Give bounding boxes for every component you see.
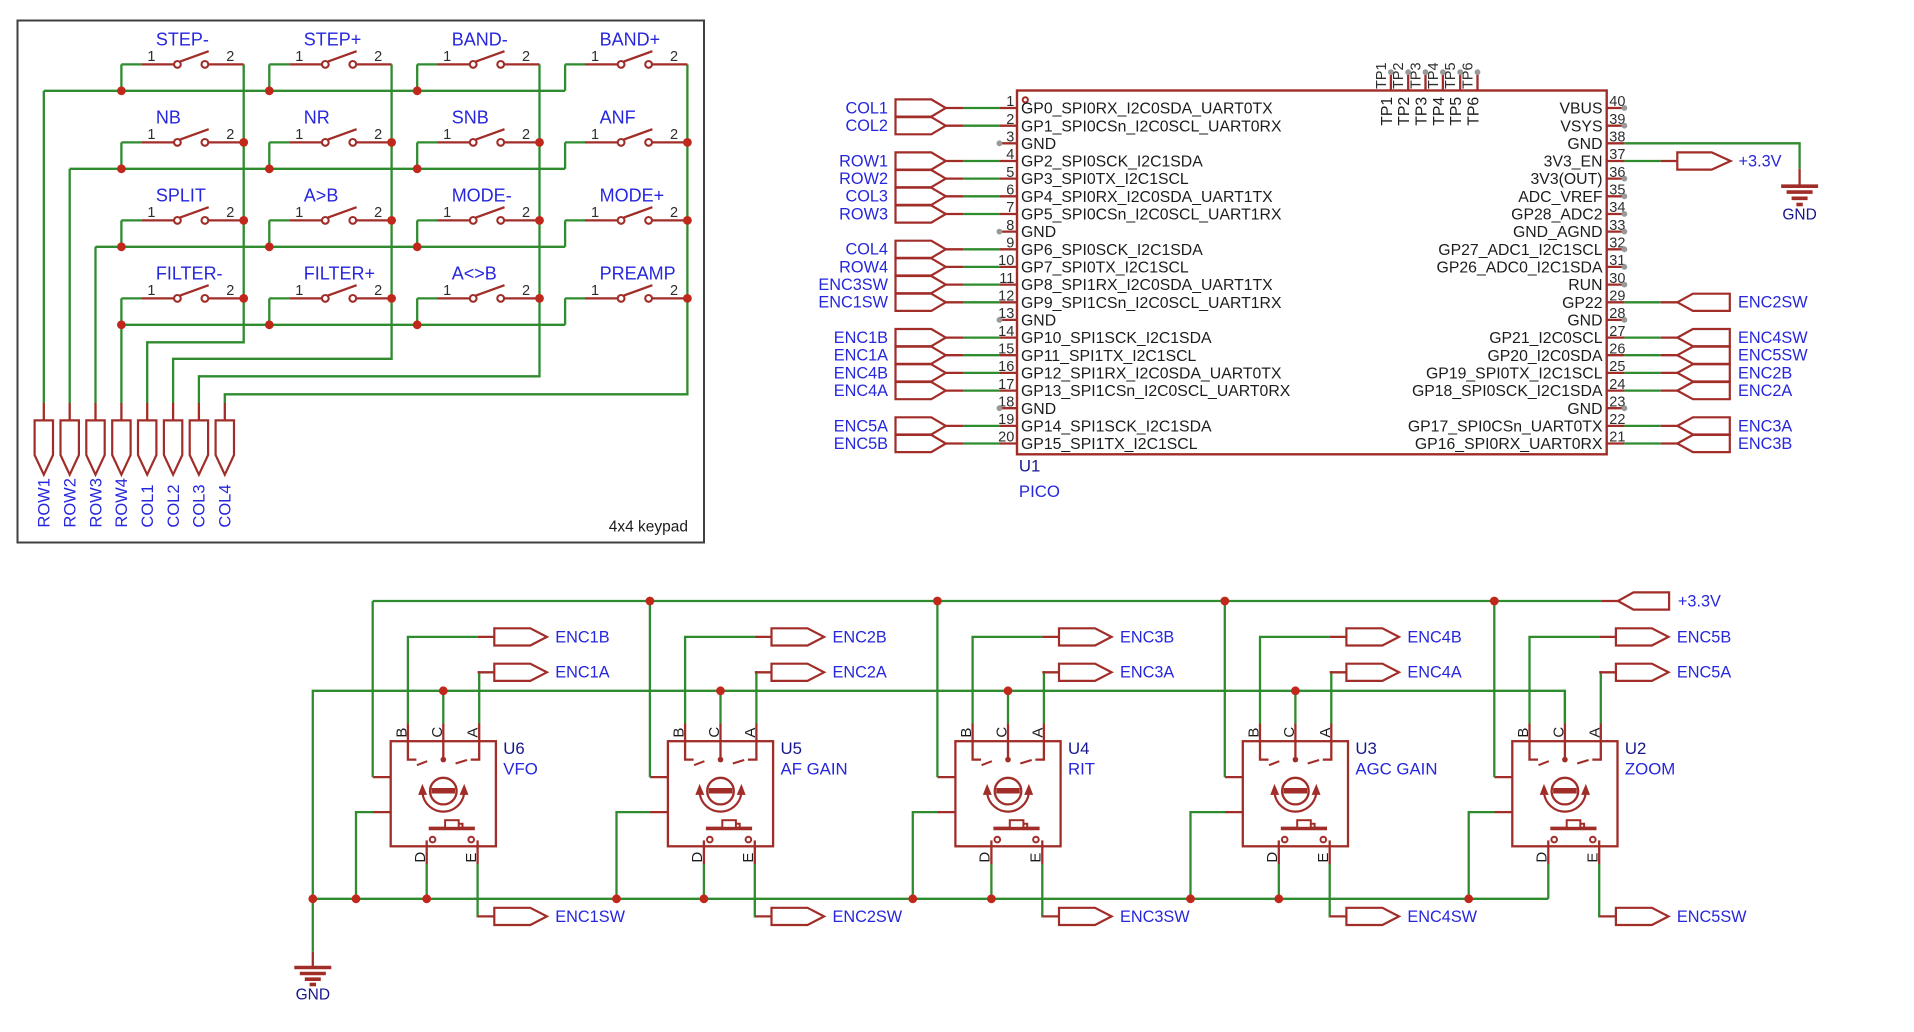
svg-text:ENC2A: ENC2A: [1738, 382, 1792, 400]
junction C rail U6: [439, 686, 448, 695]
wire GND rail: [313, 898, 1549, 900]
svg-text:E: E: [740, 853, 757, 863]
net tag ENC2A at U1 pin 24: [1624, 382, 1792, 400]
svg-text:2: 2: [374, 127, 382, 143]
junction 3V3 rail U2: [1490, 597, 1499, 606]
svg-text:ROW4: ROW4: [113, 478, 131, 528]
svg-text:ROW3: ROW3: [87, 478, 105, 528]
svg-text:2: 2: [374, 49, 382, 65]
svg-text:B: B: [958, 728, 975, 738]
svg-text:GP26_ADC0_I2C1SDA: GP26_ADC0_I2C1SDA: [1437, 260, 1603, 277]
svg-text:A: A: [1586, 728, 1603, 738]
net tag ENC2SW: [755, 908, 903, 926]
svg-text:COL2: COL2: [845, 117, 888, 135]
net tag ENC2B: [755, 628, 887, 646]
svg-text:U4: U4: [1068, 739, 1089, 758]
wire ENC2B: [685, 637, 755, 724]
svg-text:37: 37: [1609, 147, 1625, 163]
svg-text:1: 1: [443, 127, 451, 143]
U1 pin 1 GP0_SPI0RX_I2C0SDA_UART0TX: [999, 94, 1273, 117]
svg-text:U6: U6: [503, 739, 524, 758]
U1 test point pin TP6: [1461, 62, 1483, 125]
svg-text:14: 14: [998, 324, 1014, 340]
connector pin COL3: [190, 403, 209, 528]
junction GND rail U5 D: [700, 894, 709, 903]
net tag ENC5A at U1 pin 19: [834, 417, 1000, 435]
svg-text:E: E: [463, 853, 480, 863]
svg-text:NR: NR: [304, 107, 330, 127]
svg-text:BAND+: BAND+: [600, 29, 661, 49]
connector pin ROW1: [35, 403, 54, 528]
junction row1 col2: [265, 86, 274, 95]
junction row1 col3: [413, 86, 422, 95]
svg-text:TP3: TP3: [1409, 62, 1425, 89]
net tag ENC1A at U1 pin 15: [834, 347, 1000, 365]
junction GND rail U5 left: [612, 894, 621, 903]
svg-text:MODE+: MODE+: [600, 185, 665, 205]
svg-text:GP19_SPI0TX_I2C1SCL: GP19_SPI0TX_I2C1SCL: [1426, 366, 1603, 383]
svg-text:GND_AGND: GND_AGND: [1513, 224, 1603, 241]
svg-text:TP5: TP5: [1443, 62, 1459, 89]
net tag ENC5A: [1599, 664, 1731, 682]
net tag ROW4 at U1 pin 10: [839, 258, 999, 276]
svg-text:STEP-: STEP-: [156, 29, 209, 49]
U1 pin 29 GP22: [1562, 289, 1625, 312]
switch SW3 BAND-: [417, 29, 539, 90]
wire U6 C pin to rail: [442, 691, 444, 724]
svg-text:GP16_SPI0RX_UART0RX: GP16_SPI0RX_UART0RX: [1415, 436, 1603, 453]
junction GND rail U2 left: [1464, 894, 1473, 903]
junction row2 col1: [117, 164, 126, 173]
wire ENC5A: [1599, 672, 1601, 723]
wire U5 D pin to GND rail: [703, 864, 705, 899]
connector pin COL4: [216, 403, 235, 528]
wire C common rail: [313, 691, 1565, 899]
svg-text:ROW4: ROW4: [839, 258, 888, 276]
wire COL4 vertical: [225, 64, 688, 403]
svg-text:ENC1A: ENC1A: [555, 664, 609, 682]
svg-text:A: A: [1029, 728, 1046, 738]
svg-text:GP17_SPI0CSn_UART0TX: GP17_SPI0CSn_UART0TX: [1408, 419, 1603, 436]
junction COL1 pin2 row4: [239, 294, 248, 303]
net tag ENC4SW at U1 pin 27: [1624, 329, 1808, 347]
svg-text:GND: GND: [1567, 136, 1602, 153]
svg-text:B: B: [393, 728, 410, 738]
svg-text:GP11_SPI1TX_I2C1SCL: GP11_SPI1TX_I2C1SCL: [1021, 348, 1197, 365]
svg-text:SPLIT: SPLIT: [156, 185, 206, 205]
svg-text:ENC5B: ENC5B: [834, 435, 888, 453]
svg-text:1: 1: [147, 283, 155, 299]
U1 pin 16 GP12_SPI1RX_I2C0SDA_UART0TX: [998, 359, 1282, 382]
junction COL3 pin2 row4: [535, 294, 544, 303]
svg-text:1: 1: [1006, 94, 1014, 110]
U1 test point pin TP3: [1409, 62, 1431, 125]
svg-text:GND: GND: [1021, 401, 1056, 418]
junction row3 col1: [117, 242, 126, 251]
svg-text:TP4: TP4: [1431, 97, 1448, 126]
U1 pin 28 GND: [1567, 306, 1627, 329]
net tag ENC4B at U1 pin 16: [834, 364, 1000, 382]
svg-text:RIT: RIT: [1068, 760, 1095, 779]
U1 pin 20 GP15_SPI1TX_I2C1SCL: [998, 430, 1198, 453]
U1 pin 13 GND: [997, 306, 1057, 329]
svg-text:ENC1B: ENC1B: [834, 329, 888, 347]
svg-text:17: 17: [998, 377, 1014, 393]
U1 pin 39 VSYS: [1560, 112, 1627, 135]
wire ENC1A: [478, 672, 480, 723]
U1 pin1 marker: [1023, 97, 1028, 102]
svg-text:2: 2: [670, 283, 678, 299]
svg-text:GP9_SPI1CSn_I2C0SCL_UART1RX: GP9_SPI1CSn_I2C0SCL_UART1RX: [1021, 295, 1282, 312]
svg-text:ROW2: ROW2: [62, 478, 80, 528]
svg-text:GP12_SPI1RX_I2C0SDA_UART0TX: GP12_SPI1RX_I2C0SDA_UART0TX: [1021, 366, 1282, 383]
svg-text:C: C: [429, 727, 446, 738]
svg-text:TP2: TP2: [1396, 97, 1413, 126]
svg-text:ENC4A: ENC4A: [834, 382, 888, 400]
net tag ENC1A: [478, 664, 610, 682]
junction GND drop: [308, 894, 317, 903]
svg-text:GP27_ADC1_I2C1SCL: GP27_ADC1_I2C1SCL: [1438, 242, 1602, 259]
wire U6 3V3 pin: [372, 601, 374, 777]
U1 pin 32 GP27_ADC1_I2C1SCL: [1438, 236, 1627, 259]
svg-text:ZOOM: ZOOM: [1625, 760, 1675, 779]
wire U2 D pin to GND rail: [1547, 864, 1549, 899]
wire ROW2 horizontal: [70, 168, 565, 170]
svg-text:8: 8: [1006, 218, 1014, 234]
svg-text:C: C: [1281, 727, 1298, 738]
svg-text:TP1: TP1: [1374, 62, 1390, 89]
wire ENC4A: [1330, 672, 1332, 723]
svg-text:COL1: COL1: [845, 99, 888, 117]
wire ROW2 drop to connector: [69, 169, 71, 403]
net tag ENC1B: [478, 628, 610, 646]
svg-text:1: 1: [295, 49, 303, 65]
svg-text:B: B: [671, 728, 688, 738]
net tag ENC5SW at U1 pin 26: [1624, 347, 1808, 365]
power tag +3.3V at U1 pin 37: [1624, 152, 1781, 170]
svg-text:A: A: [1317, 728, 1334, 738]
U1 pin 37 3V3_EN: [1544, 147, 1626, 170]
svg-text:ENC3SW: ENC3SW: [1120, 908, 1190, 926]
switch SW11 MODE-: [417, 185, 539, 246]
wire ENC3A: [1042, 672, 1044, 723]
svg-text:ADC_VREF: ADC_VREF: [1518, 189, 1603, 206]
U1 pin 25 GP19_SPI0TX_I2C1SCL: [1426, 359, 1625, 382]
U1 test point pin TP1: [1374, 62, 1396, 125]
junction 3V3 rail U4: [933, 597, 942, 606]
svg-text:27: 27: [1609, 324, 1625, 340]
svg-text:ROW1: ROW1: [839, 152, 888, 170]
svg-text:1: 1: [147, 49, 155, 65]
ground symbol bottom: [294, 952, 331, 1004]
svg-text:3V3(OUT): 3V3(OUT): [1531, 171, 1603, 188]
junction COL1 pin2 row3: [239, 216, 248, 225]
U1 pin 33 GND_AGND: [1513, 218, 1627, 241]
svg-text:1: 1: [591, 127, 599, 143]
svg-text:1: 1: [443, 49, 451, 65]
svg-text:BAND-: BAND-: [452, 29, 508, 49]
svg-text:GP14_SPI1SCK_I2C1SDA: GP14_SPI1SCK_I2C1SDA: [1021, 419, 1212, 436]
svg-text:ENC3A: ENC3A: [1120, 664, 1174, 682]
svg-text:ROW2: ROW2: [839, 170, 888, 188]
wire ENC2A: [755, 672, 757, 723]
junction 3V3 rail U3: [1220, 597, 1229, 606]
wire COL3 vertical: [199, 64, 540, 403]
svg-text:4: 4: [1006, 147, 1014, 163]
svg-text:1: 1: [295, 127, 303, 143]
svg-text:D: D: [412, 852, 429, 863]
U1 pin 31 GP26_ADC0_I2C1SDA: [1437, 253, 1628, 276]
svg-text:FILTER-: FILTER-: [156, 263, 223, 283]
junction GND rail U3 D: [1274, 894, 1283, 903]
svg-text:2: 2: [226, 205, 234, 221]
svg-text:D: D: [1534, 852, 1551, 863]
switch SW6 NR: [269, 107, 391, 168]
U1 pin 17 GP13_SPI1CSn_I2C0SCL_UART0RX: [998, 377, 1291, 400]
svg-text:ENC5SW: ENC5SW: [1738, 347, 1808, 365]
junction row3 col2: [265, 242, 274, 251]
svg-text:VSYS: VSYS: [1560, 118, 1602, 135]
svg-text:U3: U3: [1355, 739, 1376, 758]
wire ENC1SW: [476, 864, 478, 916]
U1 pin 40 VBUS: [1559, 94, 1627, 117]
junction C rail U5: [716, 686, 725, 695]
svg-text:ENC4B: ENC4B: [1407, 628, 1461, 646]
svg-text:B: B: [1246, 728, 1263, 738]
svg-text:19: 19: [998, 412, 1014, 428]
svg-text:2: 2: [226, 283, 234, 299]
svg-text:NB: NB: [156, 107, 181, 127]
svg-text:E: E: [1584, 853, 1601, 863]
svg-text:2: 2: [670, 205, 678, 221]
svg-text:2: 2: [670, 49, 678, 65]
svg-text:2: 2: [226, 49, 234, 65]
svg-text:ENC1B: ENC1B: [555, 628, 609, 646]
wire U4 3V3 pin: [936, 601, 938, 777]
svg-text:3V3_EN: 3V3_EN: [1544, 154, 1603, 171]
junction GND rail U4 left: [908, 894, 917, 903]
U1 pin 7 GP5_SPI0CSn_I2C0SCL_UART1RX: [999, 200, 1282, 223]
net tag ENC5B at U1 pin 20: [834, 435, 1000, 453]
U1 test point pin TP2: [1391, 62, 1413, 125]
svg-text:B: B: [1515, 728, 1532, 738]
switch SW10 A>B: [269, 185, 391, 246]
U1 pin 23 GND: [1567, 394, 1627, 417]
svg-text:AF GAIN: AF GAIN: [781, 760, 848, 779]
wire ENC5SW: [1598, 864, 1600, 916]
junction COL2 pin2 row3: [387, 216, 396, 225]
wire ENC2SW: [754, 864, 756, 916]
U1 pin 8 GND: [997, 218, 1057, 241]
svg-text:GND: GND: [1782, 207, 1816, 224]
svg-text:+3.3V: +3.3V: [1739, 152, 1782, 170]
U1 pin 18 GND: [997, 394, 1057, 417]
svg-text:GP0_SPI0RX_I2C0SDA_UART0TX: GP0_SPI0RX_I2C0SDA_UART0TX: [1021, 101, 1273, 118]
wire ENC4B: [1260, 637, 1330, 724]
switch SW9 SPLIT: [121, 185, 243, 246]
svg-text:GND: GND: [296, 987, 330, 1004]
svg-text:ANF: ANF: [600, 107, 636, 127]
U1 test point pin TP5: [1443, 62, 1465, 125]
wire U3 C pin to rail: [1294, 691, 1296, 724]
wire U1 pin38 to GND: [1624, 143, 1799, 169]
svg-text:TP3: TP3: [1414, 97, 1431, 126]
svg-text:1: 1: [443, 283, 451, 299]
svg-text:TP2: TP2: [1391, 62, 1407, 89]
switch SW2 STEP+: [269, 29, 391, 90]
svg-text:GND: GND: [1567, 313, 1602, 330]
svg-text:E: E: [1028, 853, 1045, 863]
rotary encoder U2 ZOOM: [1494, 724, 1675, 865]
connector pin COL2: [164, 403, 183, 528]
svg-text:1: 1: [591, 205, 599, 221]
U1 pin 6 GP4_SPI0RX_I2C0SDA_UART1TX: [999, 183, 1273, 206]
switch SW15 A<>B: [417, 263, 539, 324]
U1 pin 2 GP1_SPI0CSn_I2C0SCL_UART0RX: [999, 112, 1282, 135]
connector pin ROW3: [86, 403, 105, 528]
switch SW13 FILTER-: [121, 263, 243, 324]
junction COL1 pin2 row2: [239, 138, 248, 147]
U1 pin 12 GP9_SPI1CSn_I2C0SCL_UART1RX: [998, 289, 1282, 312]
junction row1 col1: [117, 86, 126, 95]
junction GND rail U6 D: [422, 894, 431, 903]
net tag COL3 at U1 pin 6: [845, 188, 999, 206]
svg-text:STEP+: STEP+: [304, 29, 362, 49]
net tag ROW1 at U1 pin 4: [839, 152, 999, 170]
wire ROW3 horizontal: [96, 246, 566, 248]
junction COL3 pin2 row3: [535, 216, 544, 225]
svg-text:38: 38: [1609, 130, 1625, 146]
net tag ENC4A: [1330, 664, 1462, 682]
U1 pin 15 GP11_SPI1TX_I2C1SCL: [998, 341, 1196, 364]
wire U4 C pin to rail: [1007, 691, 1009, 724]
svg-text:GP8_SPI1RX_I2C0SDA_UART1TX: GP8_SPI1RX_I2C0SDA_UART1TX: [1021, 277, 1273, 294]
svg-text:U1: U1: [1019, 457, 1040, 476]
svg-text:GND: GND: [1021, 313, 1056, 330]
net tag ENC3SW at U1 pin 11: [818, 276, 999, 294]
net tag ENC3B: [1042, 628, 1174, 646]
svg-text:2: 2: [1006, 112, 1014, 128]
svg-text:+3.3V: +3.3V: [1678, 592, 1721, 610]
svg-text:COL1: COL1: [139, 484, 157, 527]
svg-text:GP20_I2C0SDA: GP20_I2C0SDA: [1487, 348, 1602, 365]
switch SW12 MODE+: [565, 185, 687, 246]
svg-text:C: C: [994, 727, 1011, 738]
U1 pin 19 GP14_SPI1SCK_I2C1SDA: [998, 412, 1212, 435]
svg-text:RUN: RUN: [1568, 277, 1602, 294]
svg-text:GP18_SPI0SCK_I2C1SDA: GP18_SPI0SCK_I2C1SDA: [1412, 383, 1603, 400]
switch SW7 SNB: [417, 107, 539, 168]
rotary encoder U3 AGC GAIN: [1225, 724, 1438, 865]
svg-text:ROW3: ROW3: [839, 205, 888, 223]
svg-text:1: 1: [147, 205, 155, 221]
net tag ENC3SW: [1042, 908, 1190, 926]
svg-text:1: 1: [295, 205, 303, 221]
net tag COL4 at U1 pin 9: [845, 241, 999, 259]
U1 pin 24 GP18_SPI0SCK_I2C1SDA: [1412, 377, 1625, 400]
junction row4 col1 T: [117, 320, 126, 329]
svg-text:15: 15: [998, 341, 1014, 357]
junction C rail U3: [1291, 686, 1300, 695]
svg-text:TP6: TP6: [1466, 97, 1483, 126]
junction COL2 pin2 row2: [387, 138, 396, 147]
switch SW16 PREAMP: [565, 263, 687, 324]
svg-text:1: 1: [443, 205, 451, 221]
junction 3V3 rail U5: [646, 597, 655, 606]
net tag ENC4SW: [1330, 908, 1478, 926]
net tag ENC2A: [755, 664, 887, 682]
wire ROW4 drop to connector: [120, 325, 122, 403]
wire +3.3V rail: [373, 600, 1602, 602]
svg-text:COL4: COL4: [845, 241, 888, 259]
svg-text:ENC1A: ENC1A: [834, 347, 888, 365]
svg-text:ENC5A: ENC5A: [1677, 664, 1731, 682]
svg-text:GP21_I2C0SCL: GP21_I2C0SCL: [1489, 330, 1602, 347]
svg-text:20: 20: [998, 430, 1014, 446]
wire ENC1B: [408, 637, 478, 724]
rotary encoder U4 RIT: [937, 724, 1095, 865]
svg-text:SNB: SNB: [452, 107, 489, 127]
connector pin ROW2: [61, 403, 80, 528]
svg-text:ENC3SW: ENC3SW: [818, 276, 888, 294]
U1 pin 26 GP20_I2C0SDA: [1487, 341, 1625, 364]
svg-text:ENC3B: ENC3B: [1120, 628, 1174, 646]
junction row2 col2: [265, 164, 274, 173]
svg-text:A: A: [465, 728, 482, 738]
junction row2 col3: [413, 164, 422, 173]
net tag ENC3A: [1042, 664, 1174, 682]
U1 pin 10 GP7_SPI0TX_I2C1SCL: [998, 253, 1189, 276]
net tag ROW2 at U1 pin 5: [839, 170, 999, 188]
svg-text:26: 26: [1609, 341, 1625, 357]
svg-text:A: A: [742, 728, 759, 738]
svg-text:ENC5SW: ENC5SW: [1677, 908, 1747, 926]
svg-text:ENC1SW: ENC1SW: [555, 908, 625, 926]
svg-text:2: 2: [374, 283, 382, 299]
switch SW4 BAND+: [565, 29, 687, 90]
svg-text:TP4: TP4: [1426, 62, 1442, 89]
svg-text:2: 2: [670, 127, 678, 143]
junction row4 col2: [265, 320, 274, 329]
svg-text:TP1: TP1: [1379, 97, 1396, 126]
svg-text:GND: GND: [1021, 136, 1056, 153]
wire COL2 vertical: [173, 64, 392, 403]
svg-text:6: 6: [1006, 183, 1014, 199]
svg-text:FILTER+: FILTER+: [304, 263, 375, 283]
svg-text:C: C: [1550, 727, 1567, 738]
net tag ENC1B at U1 pin 14: [834, 329, 1000, 347]
svg-text:ENC2B: ENC2B: [1738, 364, 1792, 382]
svg-text:2: 2: [522, 49, 530, 65]
U1 pin 22 GP17_SPI0CSn_UART0TX: [1408, 412, 1626, 435]
wire U5 3V3 pin: [649, 601, 651, 777]
wire ENC3B: [973, 637, 1043, 724]
svg-text:U2: U2: [1625, 739, 1646, 758]
junction COL4 pin2 row3: [683, 216, 692, 225]
junction row4 col3: [413, 320, 422, 329]
U1 pin 30 RUN: [1568, 271, 1627, 294]
U1 pin 5 GP3_SPI0TX_I2C1SCL: [999, 165, 1189, 188]
svg-text:GP4_SPI0RX_I2C0SDA_UART1TX: GP4_SPI0RX_I2C0SDA_UART1TX: [1021, 189, 1273, 206]
svg-text:2: 2: [522, 283, 530, 299]
svg-text:VFO: VFO: [503, 760, 538, 779]
svg-text:COL2: COL2: [165, 484, 183, 527]
svg-text:TP5: TP5: [1448, 97, 1465, 126]
svg-text:21: 21: [1609, 430, 1625, 446]
svg-text:ENC2A: ENC2A: [833, 664, 887, 682]
net tag ENC4A at U1 pin 17: [834, 382, 1000, 400]
junction COL4 pin2 row4: [683, 294, 692, 303]
